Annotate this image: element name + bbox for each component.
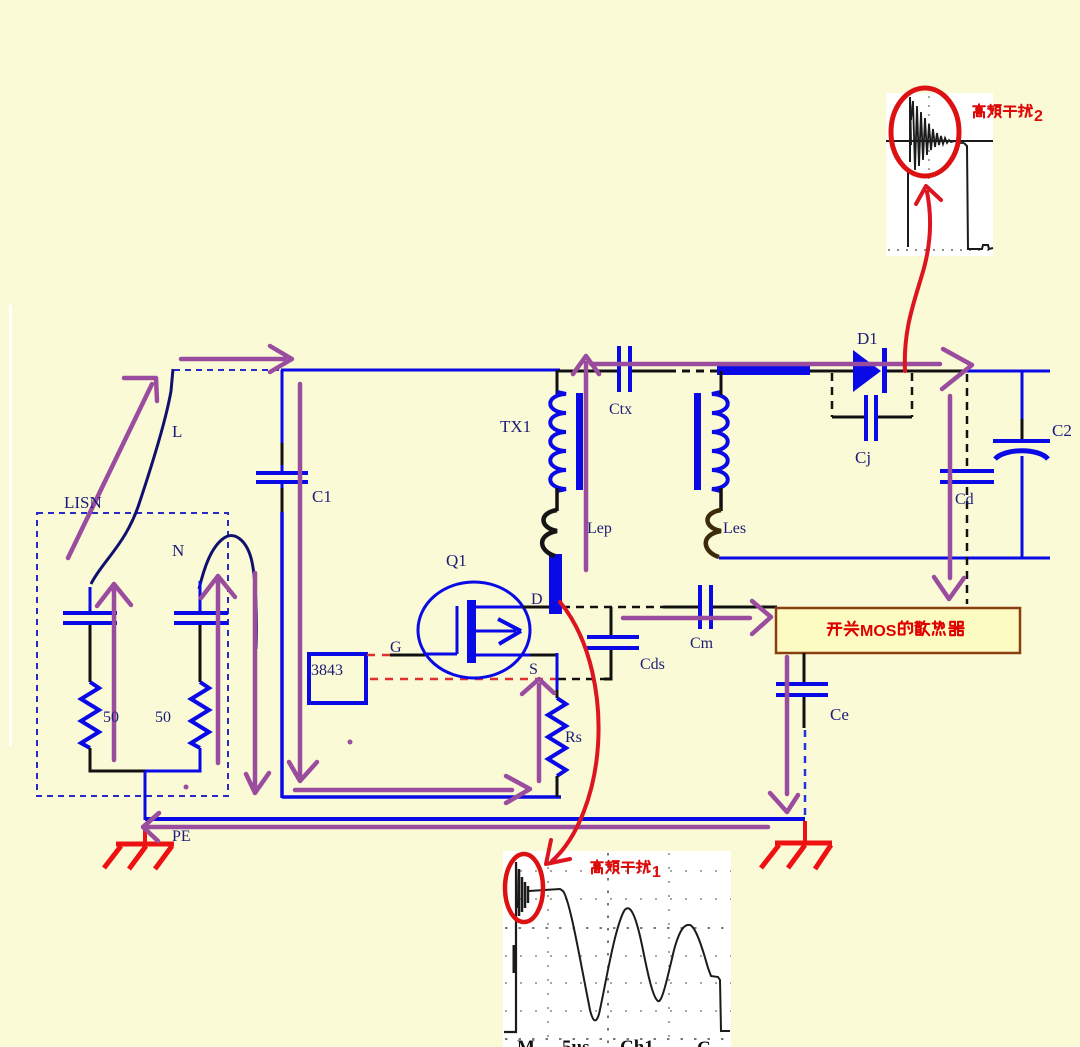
noise arrow diagonal into L [68,378,157,558]
capacitor C1 lead top [281,370,284,473]
svg-text:G: G [390,639,402,656]
svg-text:C2: C2 [1052,421,1072,440]
diode D1 [853,348,887,393]
wire D1 to output node [887,370,963,373]
heatsink label 开关MOS的散热器 [828,621,964,640]
noise arrow Ce down [770,657,798,812]
svg-text:Lep: Lep [587,520,612,537]
ground PE-left [104,829,174,869]
noise arrow C1 branch down [289,384,317,781]
svg-text:PE: PE [172,828,191,845]
scope1 waveform [504,862,730,1032]
wire primary bottom rail [282,795,561,799]
transformer TX1 secondary winding [712,392,728,491]
wire top rail dashed entry [174,369,283,371]
inductor Les (hand-drawn) [706,510,721,557]
wire L line [91,369,173,584]
wire Rs bottom [556,776,559,797]
scope2 screenshot box [886,93,993,256]
resistor 50 right [191,682,209,748]
wire LISN to PE [144,771,147,820]
transformer core bar secondary [694,393,701,490]
red arrow to scope1 [546,602,599,864]
transformer TX1 primary winding [550,392,566,491]
wire Ce lower lead [804,697,805,818]
IC 3843 box [309,654,366,703]
svg-text:Cm: Cm [690,635,714,652]
noise arrow LISN left up [97,584,131,760]
wire LISN-right lead [199,625,202,682]
svg-text:Ce: Ce [830,705,849,724]
wire bar to D1 [810,370,853,373]
svg-text:Cj: Cj [855,448,871,467]
svg-text:Cds: Cds [640,656,665,673]
svg-text:Rs: Rs [565,729,582,746]
wire C2 branch lower [1021,456,1024,558]
noise arrow bottom loop right [295,776,530,803]
svg-text:D: D [531,591,543,608]
wire drain black [523,606,551,609]
transformer TX1 primary top wire [556,370,559,395]
svg-text:S: S [529,661,538,678]
label 高频干扰2 [973,104,1043,125]
wire to Cm [663,606,700,609]
capacitor Cds [587,637,639,648]
purple dot b [184,785,189,790]
ground right (under Ce) [761,821,832,869]
capacitor Cd [940,471,994,482]
wire source black [530,654,558,657]
noise arrow up into S [522,679,554,781]
wire secondary bottom rail [719,557,1050,560]
svg-text:50: 50 [103,709,119,726]
red ellipse scope1 [505,854,543,922]
scope2 baseline [886,140,993,142]
svg-text:N: N [172,541,184,560]
wire LISN-left lead [89,625,92,682]
svg-text:TX1: TX1 [500,417,531,436]
noise arrow PE return left [143,813,768,841]
wire source down [556,653,559,698]
wire top rail black TX1 to Ctx [558,370,617,373]
noise arrow Ctx to output [591,349,972,389]
wire Ctx to junction [632,370,718,373]
capacitor Cm [700,585,711,629]
svg-text:C1: C1 [312,487,332,506]
svg-text:Cd: Cd [955,491,974,508]
capacitor Ctx [619,346,630,392]
svg-text:MOS: MOS [860,623,897,640]
svg-text:5us: 5us [562,1037,589,1047]
LISN box [37,513,228,796]
svg-text:3843: 3843 [311,662,343,679]
capacitor Cds lead [610,607,613,637]
svg-text:L: L [172,422,182,441]
noise arrow LISN right up [201,576,235,763]
inductor Lep (hand-drawn) [542,510,557,556]
capacitor C1 [256,473,308,482]
noise arrow top-left horizontal [181,346,292,372]
capacitor Ce [776,684,828,695]
noise arrow TX1 up [573,356,599,570]
wire secondary coil to Les [719,488,723,511]
label 高频干扰1 [591,860,661,881]
wire PE rail blue [145,817,805,821]
scope1 screenshot box [503,851,731,1047]
capacitor LISN-left [63,587,117,623]
noise arrow Cm into heatsink [623,601,771,634]
svg-text:LISN: LISN [64,493,102,512]
dashed box around D1 [832,373,912,417]
capacitor Cd dashed leads [966,374,969,604]
wire primary coil to Lep [555,488,559,511]
red dashed source link [370,678,558,681]
svg-text:M: M [517,1037,535,1047]
transformer secondary top wire [720,371,723,395]
component labels (latin) [64,329,1072,845]
scope2 waveform [908,97,993,249]
wire output node to right corner [962,370,1050,373]
wire LISN-left bottom [90,748,145,771]
svg-text:50: 50 [155,709,171,726]
resistor 50 left [81,682,99,748]
wire LISN-right bottom [145,748,200,771]
heatsink box [776,608,1020,653]
svg-text:Q1: Q1 [446,551,467,570]
svg-text:D1: D1 [857,329,878,348]
capacitor C2 [993,441,1050,459]
wire gate [390,654,425,657]
red ellipse scope2 [891,88,959,176]
wire thick highlighted bar [717,366,810,375]
resistor Rs [548,698,566,776]
capacitor Cj [866,395,876,441]
red dashed gate link [367,654,391,657]
wire top rail blue [281,369,560,372]
wire C2 branch upper [1021,371,1024,441]
transformer core bar primary [576,393,583,490]
red arrow to scope2 [905,186,941,371]
capacitor C1 lead bottom [281,482,284,798]
noise arrow down to heatsink right [934,396,964,599]
transistor Q1 [418,582,530,678]
wire heatsink to Ce [803,653,806,684]
purple dot a [348,740,353,745]
black dashed source link [558,650,611,679]
drain thick bar [549,554,562,614]
noise arrow N down [246,573,269,793]
svg-text:Ctx: Ctx [609,401,632,418]
svg-text:2: 2 [1034,108,1043,125]
svg-text:C: C [697,1038,711,1047]
black dashed drain link [562,606,663,609]
wire Cm to heatsink [713,606,777,609]
capacitor LISN-right [174,581,228,623]
scope1 bottom readout text [517,1037,711,1047]
svg-text:Les: Les [723,520,746,537]
svg-text:1: 1 [652,864,661,881]
svg-text:Ch1: Ch1 [620,1037,654,1047]
wire N line [199,536,256,649]
